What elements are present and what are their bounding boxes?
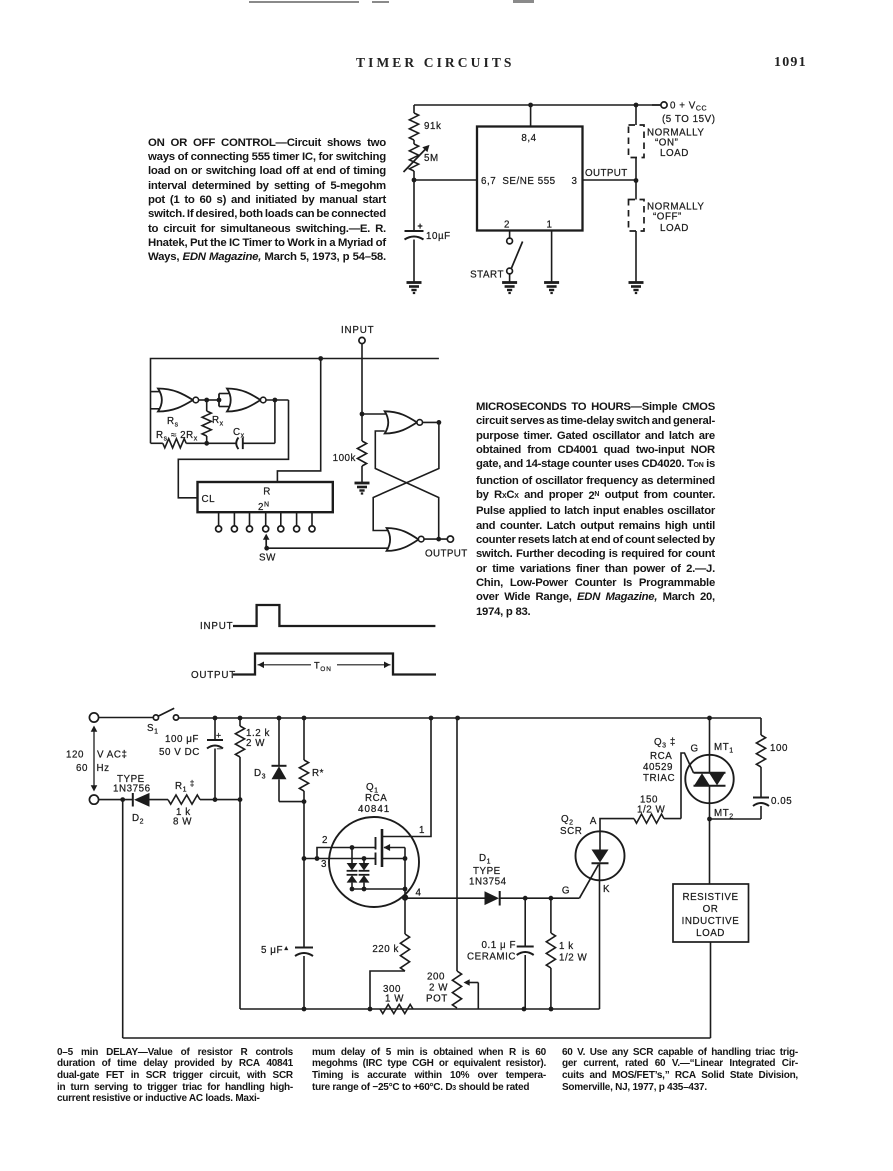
bottom caption column 1	[57, 1047, 293, 1106]
diode D3	[278, 718, 280, 766]
transistor Q1 RCA 40841 dual-gate MOSFET	[329, 817, 419, 907]
waveform INPUT trace	[233, 605, 435, 626]
Q1 inner source rail	[352, 888, 405, 890]
resistor 300 1W	[380, 1004, 413, 1013]
svg-text:120: 120	[66, 750, 84, 761]
wire to U2c input	[362, 413, 388, 415]
svg-text:“OFF”: “OFF”	[653, 212, 682, 223]
wire AC bottom row	[99, 799, 133, 801]
svg-text:OUTPUT: OUTPUT	[585, 168, 628, 179]
wire D3 to R*	[279, 801, 304, 803]
capacitor 0.05	[753, 797, 769, 799]
wire Cx to U2b output node	[274, 400, 276, 443]
svg-text:4: 4	[416, 888, 422, 899]
counter output pins Q	[218, 512, 220, 526]
diode D2 1N3756	[132, 793, 134, 807]
svg-text:50 V DC: 50 V DC	[159, 747, 200, 758]
svg-text:CL: CL	[202, 494, 216, 505]
wire terminal to switch	[99, 717, 153, 719]
wire snubber branch	[760, 718, 762, 735]
capacitor 5uF	[295, 947, 313, 949]
svg-text:S1: S1	[147, 723, 159, 736]
svg-text:0.1 μ F: 0.1 μ F	[482, 940, 517, 951]
svg-text:START: START	[470, 270, 504, 281]
svg-text:100 μF: 100 μF	[165, 734, 199, 745]
terminal AC line top	[89, 713, 98, 722]
svg-text:INDUCTIVE: INDUCTIVE	[682, 916, 740, 927]
node R*/D3	[302, 799, 307, 804]
wire input vertical	[361, 344, 363, 414]
svg-text:G: G	[562, 886, 570, 897]
node output junction	[634, 178, 639, 183]
load L1 NORMALLY ON dashed box	[629, 125, 645, 158]
page header	[356, 55, 515, 71]
svg-text:3: 3	[572, 176, 578, 187]
wire U2b output	[266, 399, 289, 401]
capacitor 100uF 50V	[214, 718, 216, 740]
svg-text:OUTPUT: OUTPUT	[425, 549, 468, 560]
svg-text:3: 3	[321, 859, 327, 870]
Q3 MT2 node	[707, 817, 712, 822]
svg-text:MT1: MT1	[714, 742, 734, 755]
wire U2a output	[199, 399, 207, 401]
svg-text:10µF: 10µF	[426, 231, 451, 242]
svg-text:CERAMIC: CERAMIC	[467, 952, 516, 963]
svg-text:D1: D1	[479, 853, 491, 866]
wire latch cross coupling left	[375, 431, 438, 539]
node Rx bottom	[204, 441, 209, 446]
svg-text:Rs ≈ 2Rx: Rs ≈ 2Rx	[156, 430, 198, 443]
Q1 source pin 4 node	[402, 894, 408, 900]
scan registration marks top	[249, 1, 359, 3]
resistor Rs feedback	[151, 442, 163, 444]
wire bottom return rail	[123, 1037, 711, 1039]
svg-text:−: −	[217, 744, 223, 754]
wire counter R input	[277, 359, 320, 483]
ground below 100k	[355, 482, 370, 485]
svg-text:K: K	[603, 884, 610, 895]
svg-text:Rs: Rs	[167, 416, 179, 429]
capacitor 0.1uF ceramic	[524, 898, 526, 946]
wire latch cross coupling right	[373, 422, 439, 530]
wire to U2b inputs	[207, 399, 219, 401]
dimension arrow T-ON	[258, 664, 312, 666]
svg-text:SE/NE 555: SE/NE 555	[502, 176, 555, 187]
Q1 gate pin 3 wire	[304, 858, 376, 860]
svg-text:Hz: Hz	[97, 763, 110, 774]
svg-text:D2: D2	[132, 813, 144, 826]
terminal +Vcc	[652, 104, 661, 106]
capacitor 10uF	[405, 230, 424, 232]
Q1 source lead	[382, 858, 405, 860]
svg-text:POT: POT	[426, 994, 448, 1005]
ground below load L2	[629, 281, 644, 284]
svg-text:40841: 40841	[358, 804, 390, 815]
node rail to counter R branch	[318, 356, 323, 361]
resistor 150 1/2W	[634, 814, 664, 823]
svg-text:D3: D3	[254, 768, 266, 781]
resistor 1.2k 2W	[239, 718, 241, 726]
node U2a output	[204, 398, 209, 403]
wire SW to latch input	[267, 547, 388, 549]
svg-text:RCA: RCA	[365, 793, 387, 804]
wire snubber to MT2	[710, 818, 762, 820]
wire U2c output	[423, 421, 439, 423]
svg-text:2 W: 2 W	[246, 738, 265, 749]
svg-text:+: +	[216, 731, 222, 741]
svg-text:+: +	[418, 221, 424, 231]
resistor Rx	[206, 400, 208, 411]
resistor 100	[756, 735, 765, 767]
wire inner bottom rail	[240, 1008, 600, 1010]
load box RESISTIVE OR INDUCTIVE LOAD	[673, 884, 749, 942]
node gate wire 3	[302, 856, 307, 861]
svg-text:220 k: 220 k	[372, 944, 399, 955]
Q1 substrate arrow lead	[384, 847, 405, 849]
svg-text:Q2: Q2	[561, 814, 574, 827]
svg-text:2 W: 2 W	[429, 983, 448, 994]
Q3 triac symbol	[694, 772, 726, 774]
Q1 gate bars	[375, 837, 377, 850]
wire pin 6,7	[414, 179, 477, 181]
counter IC CD4020 box	[198, 482, 333, 512]
caption: MICROSECONDS TO HOURS	[476, 400, 715, 619]
Q2 gate lead	[579, 865, 598, 899]
svg-text:2: 2	[322, 835, 328, 846]
node rail junction pin 8,4	[528, 103, 533, 108]
svg-text:5M: 5M	[424, 153, 439, 164]
switch START pin 2	[509, 231, 511, 239]
terminal OUTPUT	[447, 536, 453, 542]
node input/latch junction	[360, 412, 365, 417]
ground pin 1	[544, 281, 559, 284]
svg-text:60: 60	[76, 763, 88, 774]
svg-text:OUTPUT: OUTPUT	[191, 670, 236, 681]
svg-text:“ON”: “ON”	[655, 138, 678, 149]
wire load branch	[635, 105, 637, 125]
svg-text:R*: R*	[312, 768, 324, 779]
wire top rail	[179, 717, 761, 719]
svg-text:1: 1	[547, 220, 553, 231]
waveform OUTPUT trace	[233, 654, 436, 675]
node rail junction load branch	[634, 103, 639, 108]
svg-text:91k: 91k	[424, 121, 441, 132]
capacitor Cx	[207, 442, 237, 444]
svg-text:INPUT: INPUT	[341, 325, 374, 336]
Q1 drain lead pin 1	[382, 718, 431, 837]
svg-text:Q3 ‡: Q3 ‡	[654, 737, 676, 750]
wire load to bottom rail	[710, 942, 712, 1038]
svg-text:1/2 W: 1/2 W	[637, 805, 666, 816]
wire to FET gates	[303, 802, 305, 859]
Q2 cathode lead	[599, 863, 601, 1009]
resistor 91k	[413, 105, 415, 113]
svg-text:1/2 W: 1/2 W	[559, 953, 588, 964]
svg-text:OR: OR	[703, 904, 719, 915]
svg-text:LOAD: LOAD	[696, 928, 725, 939]
terminal AC line bottom	[89, 795, 98, 804]
svg-text:A: A	[590, 816, 597, 827]
svg-text:8 W: 8 W	[173, 817, 192, 828]
svg-text:SW: SW	[259, 553, 276, 564]
svg-text:2: 2	[504, 220, 510, 231]
svg-text:(5 TO 15V): (5 TO 15V)	[662, 114, 716, 125]
caption: ON OR OFF CONTROL	[148, 136, 386, 265]
node U2d output	[436, 537, 441, 542]
svg-text:TYPE: TYPE	[473, 866, 501, 877]
svg-text:INPUT: INPUT	[200, 621, 233, 632]
svg-text:1N3756: 1N3756	[113, 784, 151, 795]
wire 1.2k branch down	[239, 800, 241, 1009]
potentiometer 200 2W	[456, 718, 458, 971]
NOR gate U2a oscillator	[151, 391, 163, 393]
resistor 100k	[361, 414, 363, 441]
svg-text:1: 1	[419, 825, 425, 836]
wire pin 1 to ground	[551, 231, 553, 283]
wire MT2 to load	[709, 819, 711, 884]
NOR gate U2c latch	[385, 411, 417, 433]
svg-text:1 W: 1 W	[385, 994, 404, 1005]
svg-text:6,7: 6,7	[481, 176, 496, 187]
resistor R1 1k 8W	[168, 795, 200, 804]
bottom caption column 2	[312, 1047, 546, 1095]
Q2 anode lead	[600, 819, 634, 850]
svg-text:100k: 100k	[333, 453, 356, 464]
svg-text:LOAD: LOAD	[660, 223, 689, 234]
svg-text:TRIAC: TRIAC	[643, 773, 675, 784]
svg-text:200: 200	[427, 972, 445, 983]
dimension arrow 120V AC	[93, 728, 95, 789]
node left return	[120, 797, 125, 802]
diode D1 1N3754	[485, 891, 500, 905]
svg-text:G: G	[691, 744, 699, 755]
wire pin 3 output	[583, 179, 637, 181]
svg-text:1 k: 1 k	[559, 941, 574, 952]
Q3 MT1 lead	[709, 718, 711, 773]
Q1 protection diodes stack B	[363, 859, 365, 864]
triac Q3 RCA 40529	[685, 755, 733, 803]
IC U1 SE/NE 555	[477, 127, 583, 231]
wire top supply rail	[414, 104, 664, 106]
pot wiper arrow	[467, 982, 479, 984]
bottom caption column 3	[562, 1047, 798, 1094]
svg-text:0 + VCC: 0 + VCC	[670, 101, 707, 113]
svg-text:0.05: 0.05	[771, 796, 792, 807]
NOR gate U2b oscillator	[227, 389, 261, 412]
svg-text:RESISTIVE: RESISTIVE	[682, 892, 738, 903]
svg-text:Cx: Cx	[233, 427, 245, 440]
resistor R*	[303, 718, 305, 760]
wire pin 4 row to D1	[405, 897, 485, 899]
svg-text:100: 100	[770, 743, 788, 754]
svg-text:V AC‡: V AC‡	[97, 750, 127, 761]
svg-text:8,4: 8,4	[521, 133, 536, 144]
resistor 220k	[404, 898, 406, 935]
ground below START switch	[502, 281, 517, 284]
NOR gate U2d latch	[387, 528, 419, 551]
wire to triac gate	[681, 753, 694, 819]
resistor 1k 1/2W	[550, 898, 552, 933]
svg-text:TON: TON	[314, 661, 332, 674]
svg-text:1N3754: 1N3754	[469, 877, 507, 888]
switch S1	[153, 715, 158, 720]
node pin 6,7 junction	[412, 178, 417, 183]
wire oscillator gating rail	[151, 359, 439, 444]
wire U2b output to counter CL	[178, 400, 288, 498]
switch SW selector arrow	[265, 537, 267, 549]
svg-text:RCA: RCA	[650, 751, 672, 762]
node U2c output	[437, 420, 442, 425]
node U2b output	[273, 398, 278, 403]
Q1 channel bar	[381, 829, 384, 867]
wire 220k to rail	[370, 971, 405, 1009]
svg-text:LOAD: LOAD	[660, 148, 689, 159]
Q1 protection diodes stack A	[351, 848, 353, 864]
load L2 NORMALLY OFF dashed box	[629, 200, 645, 232]
wire left return	[122, 800, 124, 1038]
svg-text:Rx: Rx	[212, 415, 224, 428]
wire pin 8,4 to rail	[530, 105, 532, 127]
svg-text:R: R	[263, 487, 271, 498]
svg-text:SCR: SCR	[560, 826, 582, 837]
SCR Q2	[576, 831, 625, 880]
wire U2d output	[424, 538, 447, 540]
svg-text:5 μF▲: 5 μF▲	[261, 945, 290, 956]
svg-text:40529: 40529	[643, 762, 673, 773]
potentiometer 5M	[413, 140, 415, 144]
ground below 10uF	[407, 281, 422, 284]
Q1 gate pin 2 wire	[317, 848, 376, 859]
svg-text:R1 ‡: R1 ‡	[175, 779, 195, 794]
